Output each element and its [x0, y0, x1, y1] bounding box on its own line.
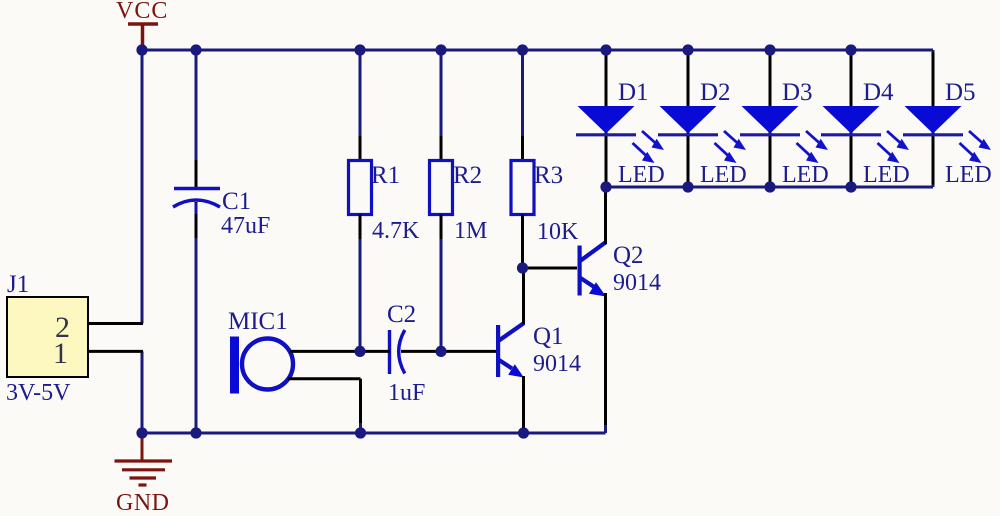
wire R1 bottom to node: [359, 239, 362, 351]
pin R1 top lead: [359, 136, 362, 162]
junction LED rail at D2: [682, 181, 693, 192]
resistor R3: [511, 161, 534, 215]
emission arrows D2: [715, 131, 747, 163]
svg-text:1M: 1M: [454, 218, 487, 244]
wire R3 bottom to node: [521, 263, 524, 268]
wire node A to C2: [360, 350, 390, 353]
wire node B to Q1 base: [441, 350, 496, 353]
junction top rail at R2: [435, 44, 446, 55]
svg-text:LED: LED: [618, 162, 665, 188]
junction top rail at R3: [517, 44, 528, 55]
emission arrows D4: [878, 131, 910, 163]
pin C1 bottom lead: [195, 202, 198, 240]
emission arrows D5: [960, 131, 992, 163]
wire right drop of top rail: [932, 50, 935, 187]
junction top rail at D1: [600, 44, 611, 55]
pin Q1 collector lead: [522, 268, 525, 324]
junction node C R3-Q1-Q2: [517, 262, 528, 273]
pin D5 lead: [932, 52, 935, 185]
LED D1: [576, 106, 636, 135]
svg-text:1: 1: [53, 337, 68, 370]
junction bottom rail at C1: [190, 427, 201, 438]
LED D3: [740, 106, 800, 135]
svg-text:GND: GND: [116, 490, 170, 516]
junction top rail at VCC: [136, 44, 147, 55]
transistor Q2: [578, 242, 607, 297]
svg-text:R2: R2: [453, 162, 482, 189]
pin J1 pin2 lead: [88, 322, 143, 325]
pin D1 lead: [605, 52, 608, 185]
svg-text:9014: 9014: [613, 270, 661, 296]
svg-text:LED: LED: [863, 162, 910, 188]
pin MIC1 bottom lead: [288, 379, 361, 425]
junction LED rail at D1: [600, 181, 611, 192]
pin J1 pin1 lead: [88, 350, 143, 353]
emission arrows D3: [797, 131, 829, 163]
pin D3 lead: [769, 52, 772, 185]
svg-text:3V-5V: 3V-5V: [6, 380, 71, 406]
LED D2: [658, 106, 718, 135]
resistor R1: [349, 161, 372, 215]
pin MIC1 top lead: [290, 350, 360, 353]
junction top rail at C1: [190, 44, 201, 55]
svg-text:LED: LED: [782, 162, 829, 188]
wire LED cathode rail: [606, 186, 933, 189]
svg-text:R1: R1: [371, 162, 400, 189]
junction bottom rail at J1: [136, 427, 147, 438]
pin D2 lead: [687, 52, 690, 185]
svg-text:C1: C1: [222, 188, 251, 215]
junction LED rail at D4: [845, 181, 856, 192]
svg-text:47uF: 47uF: [221, 213, 270, 239]
svg-text:J1: J1: [7, 271, 29, 298]
pin R3 bottom lead: [521, 215, 524, 267]
wire Q2 emitter to bottom rail: [604, 425, 607, 433]
svg-text:10K: 10K: [537, 219, 579, 245]
pin Q2 emitter lead: [604, 293, 607, 431]
capacitor C2: [390, 330, 405, 374]
svg-text:1uF: 1uF: [388, 380, 425, 406]
pin D4 lead: [850, 52, 853, 185]
junction node B R2-C2-Q1: [435, 346, 446, 357]
svg-text:D1: D1: [618, 79, 649, 106]
wire R2 top: [440, 50, 443, 138]
svg-text:Q2: Q2: [613, 242, 644, 269]
microphone MIC1: [230, 337, 293, 394]
svg-text:MIC1: MIC1: [228, 308, 288, 335]
junction node A R1-C2-MIC: [354, 346, 365, 357]
junction top rail at R1: [354, 44, 365, 55]
junction top rail at D3: [764, 44, 775, 55]
wire MIC1 bottom to rail: [359, 423, 362, 433]
junction top rail at D2: [682, 44, 693, 55]
pin R1 bottom lead: [359, 215, 362, 242]
pin Q1 emitter lead: [522, 376, 525, 433]
pin R2 top lead: [440, 136, 443, 162]
svg-text:D5: D5: [945, 79, 976, 106]
LED D5: [903, 106, 963, 135]
svg-text:VCC: VCC: [116, 0, 168, 24]
wire C1 top: [195, 50, 198, 162]
wire C2 to node B: [401, 350, 441, 353]
svg-text:LED: LED: [700, 162, 747, 188]
pin Q2 collector lead: [604, 189, 607, 244]
svg-text:R3: R3: [534, 162, 563, 189]
wire bottom ground rail: [142, 432, 606, 435]
junction bottom rail at MIC: [355, 427, 366, 438]
wire VCC column to J1 pin2: [141, 50, 144, 324]
wire J1 pin1 column to bottom rail: [141, 351, 144, 433]
svg-text:D4: D4: [863, 79, 894, 106]
wire R2 bottom to node: [440, 239, 443, 351]
junction bottom rail at Q1: [518, 427, 529, 438]
VCC power bar symbol: [128, 24, 158, 50]
connector J1: [7, 297, 88, 377]
transistor Q1: [496, 323, 524, 378]
wire top power rail: [142, 49, 933, 52]
ground symbol GND: [115, 433, 173, 485]
capacitor C1: [173, 189, 220, 208]
svg-text:D3: D3: [782, 79, 813, 106]
svg-text:LED: LED: [945, 162, 992, 188]
LED D4: [821, 106, 881, 135]
junction top rail at D4: [845, 44, 856, 55]
pin R2 bottom lead: [440, 215, 443, 242]
wire C1 bottom: [195, 238, 198, 433]
svg-text:D2: D2: [700, 79, 731, 106]
pin R3 top lead: [521, 136, 524, 162]
svg-text:Q1: Q1: [533, 323, 564, 350]
emission arrows D1: [633, 131, 665, 163]
wire R3 top: [521, 50, 524, 138]
svg-text:C2: C2: [387, 301, 416, 328]
pin C1 top lead: [195, 160, 198, 187]
resistor R2: [430, 161, 453, 215]
svg-text:4.7K: 4.7K: [372, 218, 420, 244]
junction LED rail at D3: [764, 181, 775, 192]
wire R3 node to Q2 base: [523, 267, 578, 270]
wire R1 top: [359, 50, 362, 138]
svg-text:9014: 9014: [533, 351, 581, 377]
